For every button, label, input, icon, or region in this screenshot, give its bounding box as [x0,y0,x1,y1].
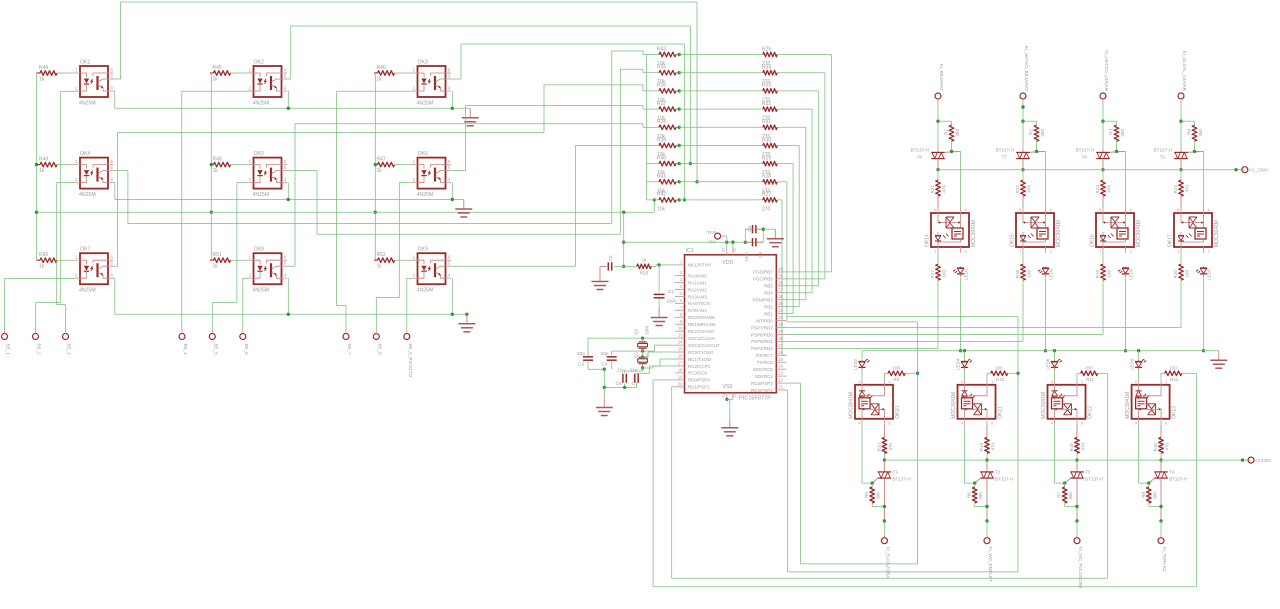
led LED3 [1038,267,1054,281]
pin 23 SDI/RC4 [755,371,786,379]
svg-text:R3: R3 [1109,129,1114,135]
wire gate net T3 [1055,425,1067,487]
svg-text:100: 100 [1085,366,1093,371]
wire R18 drive to PIC [787,280,1024,341]
optocoupler OK7 4N25M [75,247,114,294]
triac T4 BT137-H [1149,460,1188,521]
capacitor C8 100n [744,238,763,261]
svg-text:RE2/CS/AN7: RE2/CS/AN7 [688,329,715,334]
svg-text:R23: R23 [1095,185,1100,194]
resistor R30 270 [679,137,779,158]
svg-text:22: 22 [778,378,783,383]
svg-text:1k: 1k [39,168,45,174]
wire RC1 to Q1 [643,359,675,368]
resistor R44 1k [37,65,75,83]
wire ground stem crystal [603,387,605,398]
svg-text:33p: 33p [601,351,609,357]
svg-text:T1: T1 [892,470,898,475]
pin 15 RC0/T1OSO [675,347,714,355]
svg-text:RA0/AN0: RA0/AN0 [688,273,707,278]
wire to output pin [883,519,886,537]
svg-text:R32: R32 [762,101,771,107]
resistor R34 270 [679,65,779,86]
svg-text:OK8: OK8 [254,247,264,253]
triac T7 BT137-H [996,148,1046,170]
svg-text:T5: T5 [1160,155,1166,160]
svg-text:R20: R20 [1173,270,1178,279]
svg-text:OK15: OK15 [1010,234,1016,247]
output pin KI_OLDAL_UDVAR [1178,51,1187,104]
led LED7 [1196,267,1212,281]
wire RD1 to bottom ch3 [672,373,1108,578]
svg-text:MOC3041M: MOC3041M [1056,220,1062,247]
svg-text:30: 30 [778,322,783,327]
svg-text:23: 23 [778,371,783,376]
svg-text:1k: 1k [377,168,383,174]
wire OK2 collector to R40 [287,26,692,165]
svg-text:R36: R36 [657,83,666,89]
svg-text:4N25M: 4N25M [253,101,270,107]
wire R17 drive to PIC [787,280,939,348]
svg-text:R8: R8 [1141,492,1146,498]
svg-text:OK6: OK6 [418,151,428,157]
output pin KI_WC_EMELET [984,538,993,582]
resistor R40 10k [647,155,681,176]
wire OK4 collector detour to R43 [114,51,647,224]
pin 9 RE1/WR/AN6 [675,319,716,327]
capacitor C7 22p [630,368,639,388]
svg-text:RA3/AN3: RA3/AN3 [688,294,707,299]
svg-text:RC2/CCP1: RC2/CCP1 [688,364,711,369]
svg-text:T3: T3 [1085,470,1091,475]
svg-text:R16: R16 [1153,443,1158,452]
svg-text:16: 16 [678,354,683,359]
wire gate net T1 [862,425,874,487]
svg-text:4N25M: 4N25M [417,101,434,107]
svg-text:R26: R26 [762,46,771,52]
wire KI_HATSO_BEJARAT feed [1021,104,1036,149]
resistor R18 100 [1015,253,1032,280]
svg-text:24: 24 [778,364,783,369]
pin 10 RE2/CS/AN7 [675,326,715,334]
resistor R48 1k [210,157,248,175]
svg-text:RX/RC7: RX/RC7 [756,353,773,358]
resistor R39 10k [647,137,681,158]
svg-text:390: 390 [1198,129,1203,137]
svg-text:470: 470 [1107,185,1112,193]
svg-text:10k: 10k [657,206,666,212]
triac T5 BT137-H [1154,148,1204,170]
svg-text:BE_6: BE_6 [244,344,249,356]
svg-text:LED4: LED4 [956,358,961,370]
optotriac OK10 MOC3041M [849,379,902,426]
svg-text:R19: R19 [1095,270,1100,279]
svg-text:R44: R44 [39,65,48,71]
resistor R42 10k [647,192,681,213]
wire OK8 collector to R38 [287,124,647,266]
svg-text:C3: C3 [747,226,752,232]
svg-text:R35: R35 [657,65,666,71]
svg-text:40: 40 [778,266,783,271]
svg-text:MOC3041M: MOC3041M [951,392,957,419]
wire to output pin [1159,519,1162,537]
resistor R33 270 [679,83,779,104]
svg-text:KI_WC_FOLDSZINT: KI_WC_FOLDSZINT [1078,547,1083,590]
svg-text:25: 25 [778,357,783,362]
svg-text:C2: C2 [578,362,584,368]
resistor R41 10k [647,174,681,195]
svg-text:R14: R14 [979,443,984,452]
svg-text:31: 31 [721,393,726,398]
pin 35 RB2 [764,301,786,309]
svg-text:RB2: RB2 [764,304,773,309]
wire KI_BEJARAT feed [936,104,951,149]
svg-text:C5: C5 [608,255,613,261]
wire R29 to PIC [780,164,794,314]
resistor R49 1k [37,157,75,175]
pin 19 RD0/PSP0 [675,374,710,382]
svg-text:19: 19 [678,374,683,379]
pin 16 RC1/T1OSI [675,354,711,362]
wire R33 to PIC [780,91,819,286]
output pin KI_BEJARAT [935,64,944,104]
svg-text:4N25M: 4N25M [253,192,270,198]
resistor R22 470 [1015,170,1032,207]
pin 40 PGD/RB7 [753,266,786,274]
ground decoupling [767,229,784,247]
wire R32 to PIC [780,109,813,293]
svg-text:R11: R11 [1086,377,1095,382]
svg-text:RE0/RD/AN5: RE0/RD/AN5 [688,315,715,320]
wire LED7 cathode to gnd bus [1202,278,1205,353]
optocoupler OK2 4N25M [248,60,287,107]
wire VSS to ground [725,398,733,419]
crystal Q1 32k [634,351,650,370]
optocoupler OK8 4N25M [248,247,287,294]
wire LED5 cathode to gnd bus [1124,278,1127,353]
resistor R26 270 [679,46,779,67]
svg-text:18: 18 [678,367,683,372]
IC U1 PIC16F877P box [685,248,777,402]
svg-text:470: 470 [1027,185,1032,193]
pin 18 RC3/SCK [675,367,708,375]
optocoupler OK6 4N25M [412,151,451,198]
pin AC230V [1241,457,1273,463]
svg-text:390: 390 [1120,129,1125,137]
svg-text:OK10: OK10 [895,406,901,419]
wire row1 emitter bus [114,91,471,110]
ground row3 [458,314,475,332]
svg-text:470: 470 [942,185,947,193]
svg-text:1k: 1k [377,77,383,83]
input pin BE_4 [179,329,188,356]
output pin KI_WC_FOLDSZINT [1074,538,1083,590]
svg-text:C4: C4 [602,362,608,368]
led LED1 [953,267,969,281]
svg-text:MOC3041M: MOC3041M [1136,220,1142,247]
led LED4 [956,351,973,379]
output pin KI_HATSO_UDVAR [1100,50,1109,104]
wire RB0 line to ch1 riser [787,322,920,564]
svg-text:KI_ELOSZOBA: KI_ELOSZOBA [885,547,890,580]
svg-text:R42: R42 [657,192,666,198]
svg-text:TAP: TAP [707,230,716,236]
svg-text:R48: R48 [213,157,222,163]
pin 13 OSC1/CLKIN [675,333,715,341]
wire to output pin [1075,519,1078,537]
svg-text:390: 390 [955,129,960,137]
svg-text:470: 470 [1081,443,1086,451]
svg-text:BE_2: BE_2 [37,344,42,356]
svg-text:R29: R29 [762,155,771,161]
triac T2 BT137-H [975,460,1014,521]
led LED5 [1118,267,1134,281]
pin 1 MCLR/THV [675,259,711,267]
svg-text:R18: R18 [1015,270,1020,279]
resistor R32 270 [679,101,779,122]
svg-text:OK2: OK2 [254,60,264,66]
input pin BE_9_RIASZTO [404,329,413,378]
junction AC bus [936,168,939,171]
svg-text:R41: R41 [657,174,666,180]
svg-text:R38: R38 [657,119,666,125]
svg-text:PGM/RB3: PGM/RB3 [753,298,774,303]
svg-text:BE_5: BE_5 [213,344,218,356]
svg-text:BE_7: BE_7 [347,344,352,356]
crystal Q2 20MHz [634,326,650,351]
wire +5V rail [623,236,763,247]
svg-text:MOC3041M: MOC3041M [849,392,855,419]
svg-text:R30: R30 [762,137,771,143]
svg-text:R27: R27 [762,192,771,198]
junction AC bus bottom [883,458,886,461]
pin 6 RA4/T0CKI [675,298,711,306]
svg-text:39: 39 [778,273,783,278]
ground C5 [592,272,609,290]
svg-text:R50: R50 [39,252,48,258]
svg-text:R31: R31 [762,119,771,125]
wire KI_HATSO_UDVAR feed [1101,104,1116,149]
svg-text:R6: R6 [967,492,972,498]
junction AC bus bottom [1075,458,1078,461]
svg-text:100: 100 [1027,270,1032,278]
wire RB1 line to ch2 riser [787,317,1020,572]
pin 30 PSP7/RD7 [751,322,786,330]
wire RC0 to Q1 [643,352,675,357]
svg-text:33p: 33p [577,351,585,357]
svg-text:LED8: LED8 [1130,358,1135,370]
svg-text:SDI/RC4: SDI/RC4 [755,374,773,379]
svg-text:AC230V: AC230V [1255,458,1273,463]
svg-text:20M: 20M [645,326,650,335]
input pin BE_8 [373,329,382,356]
svg-text:RC3/SCK: RC3/SCK [688,371,708,376]
pin 4 RA2/AN2 [675,284,707,292]
svg-text:BE_1: BE_1 [6,344,11,356]
svg-text:T6: T6 [1082,155,1088,160]
wire RD2 to bottom ch2 [787,390,1019,572]
svg-text:KI_HATSO_UDVAR: KI_HATSO_UDVAR [1104,50,1109,91]
svg-text:34: 34 [778,308,783,313]
wire OK9 collector to R39 [451,146,647,267]
svg-text:PSP6/RD6: PSP6/RD6 [751,332,773,337]
pin TAP_+5V [707,230,727,246]
svg-text:PIC16F877P: PIC16F877P [739,396,771,402]
junction AC bus bottom [985,458,988,461]
svg-text:SDO/RC5: SDO/RC5 [753,367,774,372]
svg-text:RD0/PSP0: RD0/PSP0 [688,378,710,383]
svg-text:470: 470 [991,443,996,451]
svg-text:14: 14 [678,340,683,345]
output pin KI_ELOSZOBA [881,538,890,579]
svg-text:OK5: OK5 [254,151,264,157]
resistor R12 100 [1161,366,1196,383]
svg-text:R24: R24 [1173,185,1178,194]
svg-text:390: 390 [1152,492,1157,500]
svg-text:RA4/T0CKI: RA4/T0CKI [688,301,711,306]
ground LED bus [1210,351,1227,369]
svg-text:OK1: OK1 [80,60,90,66]
resistor R45 1k [210,65,248,83]
pin 26 RX/RC7 [756,350,786,358]
svg-text:R12: R12 [1170,377,1179,382]
svg-text:35: 35 [778,301,783,306]
svg-text:OK3: OK3 [418,60,428,66]
resistor R37 10k [647,101,681,122]
svg-text:LED2: LED2 [853,358,858,370]
input pin BE_3 [63,329,72,356]
svg-text:BE_8: BE_8 [377,344,382,356]
svg-text:4N25M: 4N25M [417,192,434,198]
wire 10k pull rail [646,55,648,200]
junction AC bus [1179,168,1182,171]
svg-text:R37: R37 [657,101,666,107]
svg-text:BT137-H: BT137-H [911,148,929,153]
resistor R3 390 [1109,125,1126,151]
svg-text:R22: R22 [1015,185,1020,194]
svg-text:R9: R9 [893,377,899,382]
wire row3 emitter bus [114,278,469,316]
pin 5 RA3/AN3 [675,291,707,299]
optocoupler OK9 4N25M [412,247,451,294]
pin 27 PSP4/RD4 [751,343,786,351]
svg-text:BT137-H: BT137-H [996,148,1014,153]
wire R28 to PIC [780,182,787,321]
wire OSC1 net [588,336,675,356]
svg-text:C7: C7 [632,381,638,387]
svg-text:100: 100 [1185,270,1190,278]
pin 34 RB1 [764,308,786,316]
svg-text:R46: R46 [377,65,386,71]
resistor R16 470 [1153,425,1170,460]
svg-text:RE1/WR/AN6: RE1/WR/AN6 [688,322,716,327]
svg-text:1k: 1k [377,264,383,270]
pin 28 PSP5/RD5 [751,336,786,344]
wire OK1 collector to R41 [114,2,699,184]
svg-text:100: 100 [942,270,947,278]
svg-text:470: 470 [888,443,893,451]
wire 1k common feed line to +5V [37,198,657,268]
pin 7 RA5/AN4 [675,305,707,313]
svg-text:20: 20 [678,381,683,386]
pin 17 RC2/CCP1 [675,360,711,368]
svg-text:T7: T7 [1002,155,1008,160]
svg-text:PGC/RB6: PGC/RB6 [753,277,773,282]
optotriac OK14 MOC3041M [925,207,978,254]
optocoupler OK1 4N25M [75,60,114,107]
resistor R8 390 [1141,487,1163,508]
pin 29 PSP6/RD6 [751,329,786,337]
wire gate net T5 [1193,150,1204,207]
wire R30 to PIC [780,146,800,307]
pin VDD stubs 32 11 [721,247,737,255]
resistor R5 390 [864,487,886,508]
svg-text:RC0/T1OSO: RC0/T1OSO [688,350,714,355]
capacitor C6 22p [616,368,643,388]
svg-text:R15: R15 [1069,443,1074,452]
wire R20 drive to PIC [787,280,1182,327]
svg-text:33: 33 [778,315,783,320]
svg-text:TX/RC6: TX/RC6 [757,360,774,365]
resistor R20 100 [1173,253,1190,280]
svg-text:390: 390 [1068,492,1073,500]
optotriac OK13 MOC3041M [1125,379,1178,426]
triac T1 BT137-H [872,460,911,521]
svg-text:1k: 1k [213,264,219,270]
resistor R10 100 [987,366,1018,383]
capacitor C2 33p [577,351,593,369]
ground VSS [721,418,738,436]
svg-text:KI_BEJARAT: KI_BEJARAT [939,64,944,91]
svg-text:RD1/PSP1: RD1/PSP1 [688,385,710,390]
wire R31 to PIC [780,127,806,299]
resistor R4 390 [1187,125,1204,151]
input pin BE_7 [343,329,352,356]
svg-text:KI_HATSO_BEJARAT: KI_HATSO_BEJARAT [1024,46,1029,91]
svg-text:1k: 1k [641,258,647,264]
svg-text:390: 390 [876,492,881,500]
svg-text:26: 26 [778,350,783,355]
svg-text:KI_TERASZ: KI_TERASZ [1162,547,1167,572]
svg-text:100: 100 [995,366,1003,371]
svg-text:4N25M: 4N25M [79,192,96,198]
resistor R28 270 [679,174,779,195]
svg-text:BT137-H: BT137-H [1076,148,1094,153]
pin 37 RB4 [764,287,786,295]
capacitor C5 100n [600,255,624,272]
svg-text:22p: 22p [617,368,625,374]
pin 38 RB5 [764,280,786,288]
wire gate net T2 [965,425,977,487]
svg-text:4N25M: 4N25M [417,288,434,294]
wire gate net T7 [1035,150,1046,207]
input pin BE_5 [209,329,218,356]
wire caps to ground [745,228,775,243]
wire row2 emitter bus [114,183,464,202]
wire gate net T6 [1115,150,1126,207]
svg-text:LED6: LED6 [1046,358,1051,370]
input pin BE_2 [33,329,42,356]
svg-text:VDD: VDD [723,260,734,266]
pin 36 PGM/RB3 [753,294,787,302]
svg-text:LED5: LED5 [1129,268,1134,280]
resistor R27 270 [679,192,779,213]
optotriac OK17 MOC3041M [1168,207,1221,254]
wire AC230V bus bottom [884,459,1251,461]
ground row2 [455,200,472,218]
pin 22 RD3/PSP3 [751,378,786,386]
resistor R31 270 [679,119,779,140]
